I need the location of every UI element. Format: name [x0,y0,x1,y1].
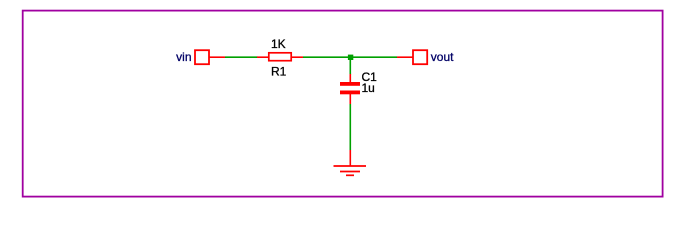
wire [303,56,397,58]
port VIN [195,50,225,64]
ground [334,150,367,175]
svg-text:R1: R1 [271,65,287,79]
wire [225,56,258,58]
wire [397,56,413,58]
capacitor C1 [340,74,360,104]
port VOUT [413,50,427,64]
svg-text:vout: vout [431,50,454,64]
wire [349,104,351,150]
svg-text:1K: 1K [271,37,286,51]
wire [349,60,351,75]
junction node [348,55,353,60]
schematic sheet border [23,11,663,197]
resistor R1 [257,53,303,61]
svg-text:1u: 1u [362,81,375,95]
svg-text:vin: vin [176,50,191,64]
